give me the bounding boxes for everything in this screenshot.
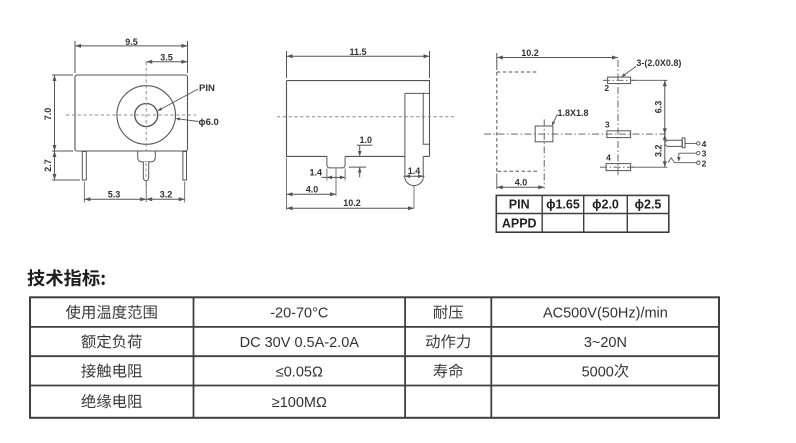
svg-text:2: 2 bbox=[702, 158, 707, 168]
svg-text:3.2: 3.2 bbox=[160, 190, 173, 200]
side view: horizontal centerline bbox=[277, 116, 455, 118]
svg-text:≥100MΩ: ≥100MΩ bbox=[272, 395, 327, 411]
spec row 2 label 2: operating force bbox=[426, 334, 470, 348]
label 1.8X1.8 with leader bbox=[552, 108, 589, 126]
front view: jack body outline bbox=[75, 75, 188, 151]
terminal 4 bbox=[697, 142, 700, 145]
spec row 3 label 2: lifespan bbox=[433, 363, 463, 377]
front view: center pin bbox=[143, 162, 148, 181]
dimension 10.2 (bottom view) bbox=[497, 48, 618, 70]
front view: barrel circle d6.0 bbox=[117, 86, 176, 145]
front view: left leg bbox=[82, 152, 86, 181]
dimension 1.4 (tab width) bbox=[310, 168, 346, 181]
wire to terminal 4 bbox=[685, 142, 697, 144]
wire: rear pin extension bbox=[413, 186, 415, 208]
spec row 4 label: insulation resistance bbox=[81, 394, 141, 408]
dimension 10.2 (side view) bbox=[287, 198, 415, 210]
node: pad 4 bbox=[606, 164, 631, 171]
svg-text:3.5: 3.5 bbox=[160, 52, 173, 62]
switch actuator arrow bbox=[678, 153, 680, 159]
node: pad 3 bbox=[607, 131, 631, 138]
svg-text:3.2: 3.2 bbox=[654, 144, 664, 157]
front view: vertical centerline bbox=[145, 62, 147, 186]
svg-text:10.2: 10.2 bbox=[521, 48, 539, 58]
front view: center pin circle bbox=[135, 104, 158, 127]
spring contact (pin 2) bbox=[668, 158, 697, 163]
svg-text:4: 4 bbox=[702, 139, 707, 149]
svg-text:6.3: 6.3 bbox=[654, 101, 664, 114]
svg-text:ϕ6.0: ϕ6.0 bbox=[199, 117, 219, 128]
node: square pad 1.8x1.8 (pin 1) bbox=[535, 126, 553, 142]
label 3-(2.0X0.8) with leader bbox=[621, 58, 681, 77]
dimension 1.0 (tab protrusion) bbox=[349, 135, 373, 177]
svg-text:≤0.05Ω: ≤0.05Ω bbox=[276, 364, 323, 380]
dimension 4.0 (bottom view) bbox=[497, 174, 545, 190]
dimension 6.3 / 3.2 (pad spacing) bbox=[632, 80, 668, 167]
svg-text:5.3: 5.3 bbox=[108, 190, 121, 200]
svg-text:1.4: 1.4 bbox=[310, 168, 323, 178]
spec row 2 label: rated load bbox=[82, 334, 142, 348]
front view: horizontal centerline bbox=[66, 114, 196, 116]
svg-text:ϕ1.65: ϕ1.65 bbox=[546, 198, 580, 212]
wire to terminal 3 bbox=[679, 152, 697, 154]
svg-text:3: 3 bbox=[702, 149, 707, 159]
horizontal centerline (bottom view) bbox=[484, 133, 666, 135]
svg-text:4.0: 4.0 bbox=[306, 184, 319, 194]
svg-text:PIN: PIN bbox=[509, 198, 530, 212]
svg-text:3: 3 bbox=[605, 119, 610, 129]
vertical centerline through pads 2-4 bbox=[617, 60, 619, 177]
svg-text:DC 30V 0.5A-2.0A: DC 30V 0.5A-2.0A bbox=[240, 335, 360, 351]
svg-text:7.0: 7.0 bbox=[43, 108, 53, 121]
svg-text:-20-70°C: -20-70°C bbox=[270, 306, 328, 322]
svg-text:ϕ2.0: ϕ2.0 bbox=[592, 198, 619, 212]
terminal 2 bbox=[697, 161, 700, 164]
side view: body outline bbox=[287, 81, 430, 157]
spec table grid bbox=[30, 297, 719, 418]
svg-text:2: 2 bbox=[604, 83, 609, 93]
front view: right leg bbox=[183, 152, 187, 181]
heading: technical specifications bbox=[28, 269, 105, 286]
svg-text:10.2: 10.2 bbox=[343, 198, 361, 208]
spec row 3 label: contact resistance bbox=[81, 364, 142, 378]
dimension 3.5 (center offset) bbox=[146, 52, 187, 63]
svg-text:ϕ2.5: ϕ2.5 bbox=[635, 198, 662, 212]
svg-text:1.0: 1.0 bbox=[360, 135, 373, 145]
svg-text:1.4: 1.4 bbox=[408, 166, 421, 176]
svg-text:APPD: APPD bbox=[502, 216, 537, 230]
dimension 7.0 (body height) bbox=[43, 75, 73, 151]
label phi6.0 with leader bbox=[175, 117, 219, 128]
plug barrel symbol (pin 4 contact) bbox=[665, 140, 682, 146]
plug flange bbox=[682, 138, 685, 148]
front view: center boss bbox=[138, 152, 156, 162]
svg-text:1.8X1.8: 1.8X1.8 bbox=[558, 108, 589, 118]
terminal 3 bbox=[697, 152, 700, 155]
side view: bottom tab bbox=[327, 156, 345, 168]
spec row 1 label 2: withstand voltage bbox=[434, 305, 463, 319]
svg-text:9.5: 9.5 bbox=[125, 37, 138, 47]
pin diameter table bbox=[496, 195, 669, 232]
svg-text:11.5: 11.5 bbox=[349, 47, 366, 57]
svg-text:5000: 5000 bbox=[582, 364, 614, 380]
svg-text:4.0: 4.0 bbox=[515, 178, 528, 188]
dimension 1.4 (rear pin width) bbox=[404, 166, 425, 178]
wire: pin extension line bbox=[145, 181, 147, 202]
side view: rear terminal pin bbox=[405, 93, 430, 185]
svg-text:4: 4 bbox=[606, 152, 611, 162]
svg-text:PIN: PIN bbox=[199, 83, 215, 94]
wire: tab extension bbox=[335, 169, 337, 196]
dimension 5.3 / 3.2 (leg spacing) bbox=[84, 182, 184, 203]
dimension 2.7 (leg length) bbox=[43, 151, 80, 180]
svg-text:AC500V(50Hz)/min: AC500V(50Hz)/min bbox=[543, 306, 668, 322]
svg-text:2.7: 2.7 bbox=[43, 159, 53, 172]
dimension 9.5 (body width) bbox=[75, 37, 188, 73]
dimension 4.0 bbox=[287, 158, 337, 210]
svg-text:3~20N: 3~20N bbox=[584, 335, 627, 351]
svg-text:3-(2.0X0.8): 3-(2.0X0.8) bbox=[636, 58, 681, 68]
dimension 11.5 (body length) bbox=[287, 47, 430, 78]
spec row 1 label: operating temperature range bbox=[66, 305, 157, 319]
label PIN with leader bbox=[157, 83, 215, 111]
node: pad 2 bbox=[608, 77, 631, 84]
centerline through pin 1 bbox=[543, 119, 545, 188]
bottom view: body outline (hidden lines) bbox=[496, 72, 498, 173]
